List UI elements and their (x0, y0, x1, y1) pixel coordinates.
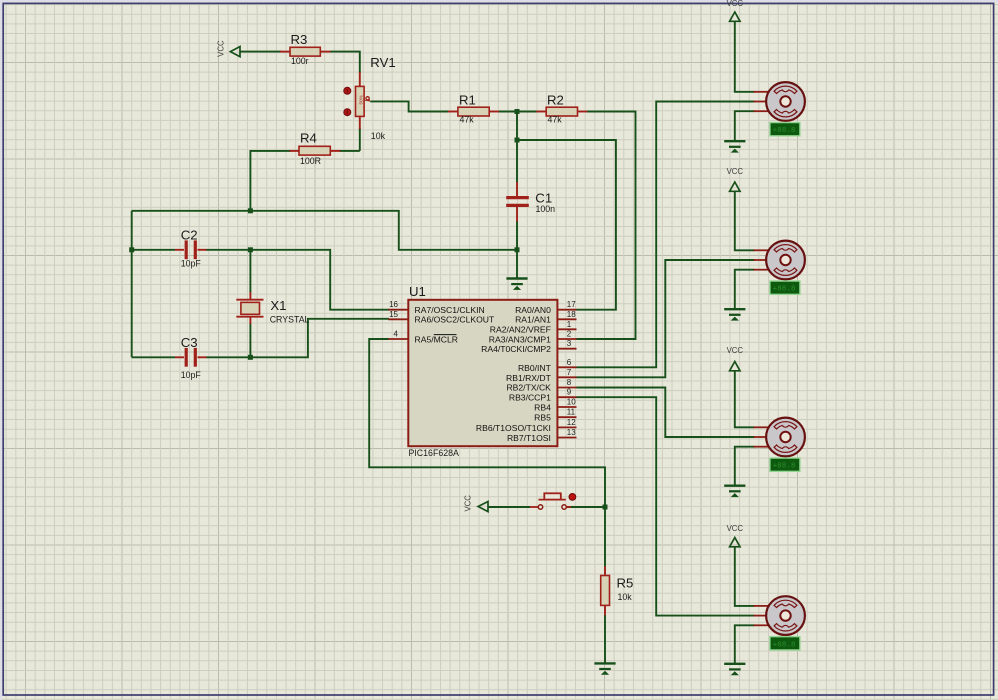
svg-text:U1: U1 (409, 284, 426, 299)
display M4 rpm (770, 637, 800, 650)
svg-text:6: 6 (567, 358, 572, 367)
svg-text:RV1: RV1 (370, 55, 395, 70)
wire (577, 102, 755, 368)
svg-text:50%: 50% (358, 95, 363, 104)
wire (735, 270, 755, 309)
display M2 rpm (770, 281, 800, 294)
node junction (248, 247, 253, 252)
svg-text:VCC: VCC (727, 524, 744, 533)
pin 16 RA7/OSC1/CLKIN (388, 300, 484, 315)
wire (577, 388, 755, 438)
pin 6 RB0/INT (518, 358, 577, 373)
svg-text:VCC: VCC (216, 40, 225, 57)
wire (131, 211, 133, 357)
pin 17 RA0/AN0 (515, 300, 576, 315)
node junction (129, 247, 134, 252)
svg-text:9: 9 (567, 388, 572, 397)
node junction (603, 505, 608, 510)
svg-text:PIC16F628A: PIC16F628A (409, 448, 459, 458)
svg-text:47k: 47k (548, 115, 563, 125)
pin 2 RA3/AN3/CMP1 (489, 330, 577, 345)
svg-text:2: 2 (567, 330, 572, 339)
wire (249, 324, 251, 358)
pin 11 RB5 (534, 408, 576, 423)
ground (C1 net) (506, 279, 527, 290)
svg-text:VCC: VCC (727, 167, 744, 176)
svg-text:R5: R5 (617, 576, 634, 591)
pin 15 RA6/OSC2/CLKOUT (388, 310, 495, 325)
wire (339, 150, 360, 152)
pin 18 RA1/AN1 (515, 310, 576, 325)
svg-text:100r: 100r (291, 56, 309, 66)
resistor R2 (536, 93, 587, 125)
capacitor C3 (175, 335, 207, 380)
svg-text:RA7/OSC1/CLKIN: RA7/OSC1/CLKIN (415, 305, 485, 315)
node junction (248, 208, 253, 213)
wire (735, 191, 755, 250)
motor M4 (754, 596, 805, 635)
pin 3 RA4/T0CKI/CMP2 (481, 339, 576, 354)
svg-text:7: 7 (567, 368, 572, 377)
svg-text:RA6/OSC2/CLKOUT: RA6/OSC2/CLKOUT (415, 315, 496, 325)
wire (577, 112, 636, 340)
wire (250, 319, 389, 358)
wire (132, 356, 175, 358)
pin 9 RB3/CCP1 (509, 388, 577, 403)
svg-text:10k: 10k (618, 592, 633, 602)
svg-text:RB1/RX/DT: RB1/RX/DT (506, 373, 552, 383)
svg-text:1: 1 (567, 320, 572, 329)
svg-text:RA0/AN0: RA0/AN0 (515, 305, 551, 315)
wire (577, 260, 755, 377)
wire (735, 111, 755, 141)
svg-text:RB4: RB4 (534, 402, 551, 412)
wire (369, 339, 605, 507)
wire (735, 547, 755, 606)
svg-text:R1: R1 (459, 93, 476, 108)
svg-text:4: 4 (394, 330, 399, 339)
wire (516, 221, 518, 278)
node junction (515, 109, 520, 114)
pin 12 RB6/T1OSO/T1CKI (476, 418, 577, 433)
wire (330, 52, 360, 73)
svg-text:100n: 100n (536, 204, 556, 214)
wire (516, 112, 518, 183)
svg-text:15: 15 (389, 310, 398, 319)
svg-text:18: 18 (567, 310, 576, 319)
wire (250, 250, 389, 310)
svg-text:RA1/AN1: RA1/AN1 (515, 315, 551, 325)
wire (604, 507, 606, 567)
svg-text:X1: X1 (270, 298, 286, 313)
wire (499, 111, 538, 113)
wire (577, 397, 755, 615)
capacitor C1 (506, 182, 555, 222)
node junction (248, 355, 253, 360)
wire (735, 625, 755, 663)
svg-text:R2: R2 (547, 93, 564, 108)
wire (567, 506, 606, 508)
crystal X1 (236, 292, 309, 325)
svg-text:10k: 10k (371, 131, 386, 141)
display M1 rpm (770, 123, 800, 136)
svg-text:RB2/TX/CK: RB2/TX/CK (506, 383, 551, 393)
wire (604, 615, 606, 664)
svg-text:13: 13 (567, 428, 576, 437)
power VCC M4 (727, 524, 744, 547)
pin 7 RB1/RX/DT (506, 368, 576, 383)
wire (488, 506, 530, 508)
wire (735, 371, 755, 428)
svg-text:C3: C3 (181, 335, 198, 350)
svg-text:8: 8 (567, 378, 572, 387)
wire (240, 51, 281, 53)
svg-text:CRYSTAL: CRYSTAL (270, 315, 310, 325)
svg-text:10pF: 10pF (181, 370, 202, 380)
svg-text:RA2/AN2/VREF: RA2/AN2/VREF (490, 324, 551, 334)
svg-text:R3: R3 (291, 32, 308, 47)
wire (132, 211, 517, 250)
pin 1 RA2/AN2/VREF (490, 320, 577, 335)
svg-text:10: 10 (567, 398, 576, 407)
pin 4 RA5/MCLR (388, 330, 458, 345)
pin 8 RB2/TX/CK (506, 378, 576, 393)
svg-text:RA3/AN3/CMP1: RA3/AN3/CMP1 (489, 334, 551, 344)
power VCC M1 (727, 0, 744, 21)
svg-text:RB7/T1OSI: RB7/T1OSI (507, 433, 551, 443)
wire (735, 447, 755, 486)
svg-text:RB0/INT: RB0/INT (518, 363, 552, 373)
svg-text:RB5: RB5 (534, 413, 551, 423)
pin 13 RB7/T1OSI (507, 428, 577, 443)
node junction (515, 138, 520, 143)
wire (517, 140, 616, 310)
svg-text:C2: C2 (181, 228, 198, 243)
wire (359, 128, 361, 151)
display M3 rpm (770, 458, 800, 471)
svg-text:11: 11 (567, 408, 576, 417)
svg-text:RA5/MCLR: RA5/MCLR (415, 334, 458, 344)
resistor R3 (280, 32, 331, 66)
capacitor C2 (175, 228, 207, 269)
wire (735, 21, 755, 92)
resistor R5 (601, 566, 634, 615)
wire (132, 249, 175, 251)
svg-text:RB3/CCP1: RB3/CCP1 (509, 393, 551, 403)
ground (R5 net) (594, 663, 615, 674)
power VCC (top left) (216, 40, 240, 57)
svg-text:47k: 47k (460, 115, 475, 125)
push button (530, 493, 576, 509)
ground M2 (724, 309, 745, 320)
motor M3 (754, 418, 805, 457)
power VCC M3 (727, 346, 744, 371)
ground M3 (724, 486, 745, 497)
op-amp U1 PIC16F628A microcontroller (408, 284, 557, 458)
power VCC M2 (727, 167, 744, 191)
power VCC (button net) (464, 495, 489, 512)
motor M2 (754, 241, 805, 280)
svg-text:RA4/T0CKI/CMP2: RA4/T0CKI/CMP2 (481, 344, 551, 354)
potentiometer RV1 (344, 55, 396, 141)
ground M1 (724, 141, 745, 152)
svg-text:17: 17 (567, 300, 576, 309)
svg-text:12: 12 (567, 418, 576, 427)
ground M4 (724, 664, 745, 675)
resistor R4 (290, 131, 341, 166)
wire (370, 101, 449, 111)
wire (206, 249, 250, 251)
resistor R1 (448, 93, 499, 125)
wire (250, 151, 290, 211)
svg-text:VCC: VCC (464, 495, 473, 512)
wire (249, 250, 251, 293)
motor M1 (754, 82, 805, 121)
svg-text:VCC: VCC (727, 346, 744, 355)
svg-text:VCC: VCC (727, 0, 744, 8)
wire (206, 356, 250, 358)
svg-text:3: 3 (567, 339, 572, 348)
svg-text:RB6/T1OSO/T1CKI: RB6/T1OSO/T1CKI (476, 423, 551, 433)
svg-text:R4: R4 (300, 131, 317, 146)
svg-text:100R: 100R (300, 156, 321, 166)
node junction (515, 247, 520, 252)
pin 10 RB4 (534, 398, 576, 413)
svg-text:16: 16 (389, 300, 398, 309)
svg-text:10pF: 10pF (181, 259, 202, 269)
